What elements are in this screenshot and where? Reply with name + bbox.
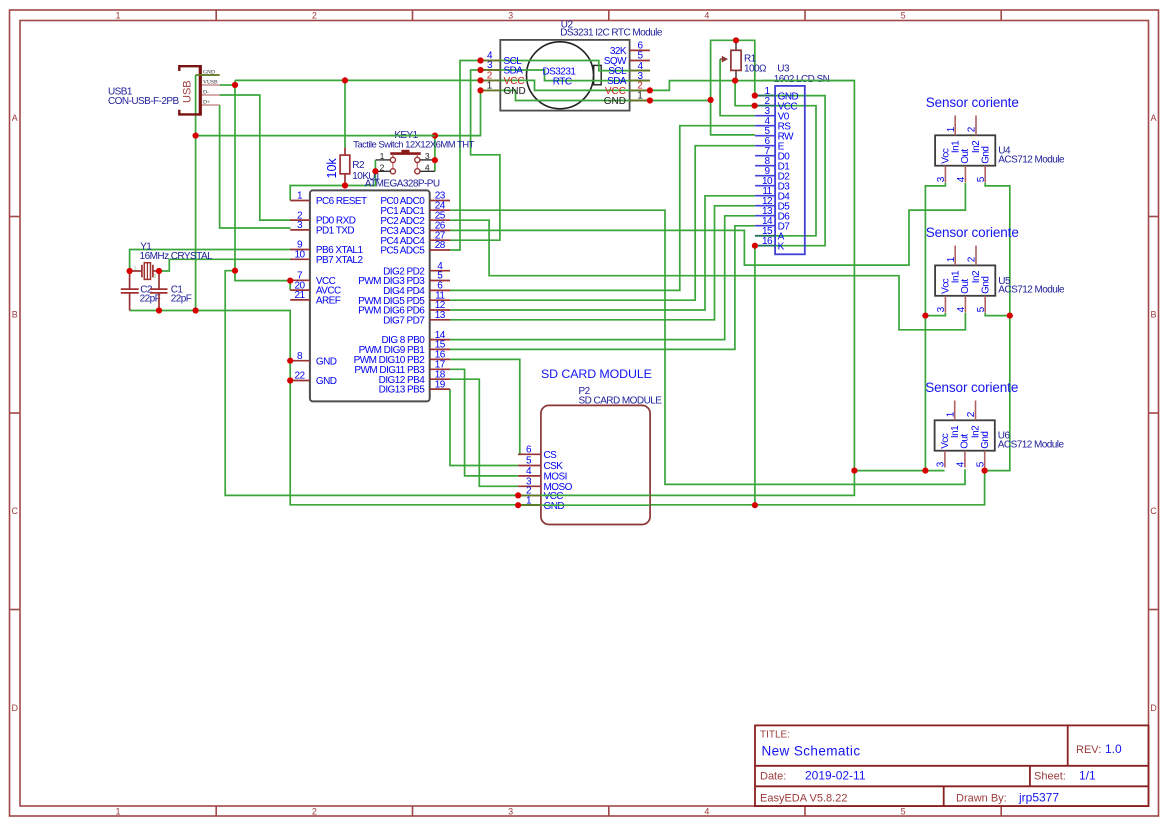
U5 pin 3 bottom [936,296,947,313]
wire U5 Gnd jog [985,313,1010,316]
svg-text:Date:: Date: [760,771,786,783]
wire VCC to chip and SD [225,271,854,496]
U1 pin 4 DIG2 PD2 [383,261,450,277]
U1 pin 8 GND [290,351,337,367]
U3 pin 4 RS [755,116,791,132]
svg-text:Gnd: Gnd [980,432,991,449]
U2 pin 2 VCC right [605,81,650,97]
svg-text:GND: GND [544,501,565,512]
wire pin6 to LCD RS [450,126,755,291]
wire over USB GND pin [196,74,220,76]
U1 pin 6 DIG4 PD4 [383,281,450,297]
resistor R1 [720,40,741,80]
U1 pin 27 PC4 ADC4 [380,230,450,246]
U2 pin 1 GND left [481,81,526,97]
svg-text:DIG13 PB5: DIG13 PB5 [379,385,426,396]
U1 pin 21 AREF [290,290,341,306]
U1 pin 26 PC3 ADC3 [380,221,450,237]
U6 pin 5 bottom [975,451,986,468]
wire over SD VCC GND pins [518,495,541,505]
U3 pin 6 E [755,136,785,152]
svg-text:VUSB: VUSB [203,80,218,86]
svg-text:D: D [11,703,18,713]
wire over SD card box VCC [541,494,650,496]
svg-text:Sensor coriente: Sensor coriente [925,380,1018,395]
U2 pin 1 GND right [604,91,650,107]
RTC module U2 body [500,40,629,111]
U6 designator labels [998,431,1065,451]
row tick marks right [1149,217,1159,610]
current sensor U6 body [935,420,995,450]
svg-text:DIG7 PD7: DIG7 PD7 [383,315,425,326]
U6 pin 4 bottom [956,451,967,468]
svg-text:K: K [778,241,785,252]
svg-text:DS3231 I2C RTC Module: DS3231 I2C RTC Module [560,27,663,38]
wire over RTC right pins [630,71,650,101]
wire pin16 to SD CS [450,359,520,454]
RTC module U2 labels [560,20,663,39]
title block Date [760,769,866,783]
U1 pin 13 DIG7 PD7 [383,310,450,326]
svg-text:4: 4 [425,162,430,172]
wire RESET net left [290,186,345,201]
connector USB1 labels [108,87,180,108]
svg-text:1.0: 1.0 [1105,742,1122,756]
svg-text:ACS712 Module: ACS712 Module [998,440,1065,451]
Sensor coriente label U6 [925,380,1018,395]
U2 pin 2 VCC left [481,71,525,87]
U1 pin 7 VCC [290,271,335,287]
crystal Y1 labels [140,241,213,262]
U2 internal text [543,66,577,87]
R2 value rotated 10k [325,158,339,179]
P2 pin 3 MOSO [518,477,573,493]
U5 pin 5 bottom [976,296,987,313]
wire U4 Vcc chain [925,183,945,471]
USB1 pin D- [202,90,220,96]
svg-text:Sheet:: Sheet: [1034,771,1066,783]
wire over LCD pins [755,96,775,246]
U1 pin 22 GND [290,371,337,387]
svg-text:Out: Out [960,149,971,164]
svg-text:GND: GND [504,86,526,97]
svg-text:R2: R2 [352,160,365,171]
svg-text:2: 2 [380,162,385,172]
U1 pin 28 PC5 ADC5 [380,240,450,256]
svg-text:16MHz CRYSTAL: 16MHz CRYSTAL [140,251,213,262]
svg-text:ATMEGA328P-PU: ATMEGA328P-PU [365,179,440,190]
svg-text:GND: GND [316,356,337,367]
KEY1 pin 2 [376,162,391,172]
svg-text:3: 3 [508,11,513,21]
svg-text:2019-02-11: 2019-02-11 [805,769,866,783]
wire USB D+ to TXD [220,105,291,228]
svg-text:jrp5377: jrp5377 [1018,790,1059,804]
svg-text:C: C [11,506,18,516]
svg-text:D+: D+ [203,100,210,106]
wire RTC internal GND [500,90,650,100]
resistor R2 [340,148,350,186]
wire GND bottom rail to SD and sensors [130,311,985,505]
LCD U3 labels [774,63,830,85]
U1 pin 2 PD0 RXD [290,210,356,226]
column numbers top [115,11,905,21]
U3 pin 11 D4 [755,186,790,202]
svg-text:A: A [12,113,18,123]
wire USB VUSB [220,84,235,86]
wire K to GND [754,246,756,506]
crystal pad numbers [134,266,157,280]
wire XTAL1 [130,250,291,272]
wire U5 Vcc jog [925,313,945,316]
svg-text:TITLE:: TITLE: [760,730,790,741]
svg-text:CON-USB-F-2PB: CON-USB-F-2PB [108,96,180,107]
C1 labels [171,285,192,305]
svg-text:B: B [12,310,18,320]
svg-text:1: 1 [115,807,120,817]
svg-text:5: 5 [901,807,906,817]
P2 pin 5 CSK [518,456,563,472]
P2 pin 6 CS [518,445,557,461]
USB1 pin VUSB [202,80,220,86]
U4 pin names [940,140,991,164]
svg-text:D: D [1150,703,1157,713]
U3 pin 12 D5 [755,196,790,212]
wire VCC pin7 jog [235,271,290,291]
svg-text:Drawn By:: Drawn By: [956,792,1007,804]
svg-text:REV:: REV: [1076,744,1101,756]
U1 pin 15 PWM DIG9 PB1 [359,340,450,356]
svg-text:2: 2 [312,807,317,817]
crystal Y1 [130,263,159,280]
wire SDA net [450,70,500,240]
wire pin18 to SD MOSO [450,379,518,486]
wire VCC loop to LCD [755,106,816,236]
svg-text:4: 4 [704,11,709,21]
svg-text:PB7 XTAL2: PB7 XTAL2 [316,255,364,266]
C2 labels [140,285,161,305]
KEY1 pin 3 [420,151,435,161]
Sensor coriente label U5 [926,225,1019,240]
wire pin13 to LCD D5 [450,206,755,320]
U2 pin 4 SCL left [481,51,523,67]
U3 pin 16 K [755,236,785,252]
wire pin24 to LCD A and U6 Out [450,210,965,484]
svg-text:21: 21 [294,290,305,301]
svg-text:22pF: 22pF [140,294,161,305]
column numbers bottom [115,807,905,817]
wire GND rail [196,90,481,135]
svg-text:Gnd: Gnd [981,147,992,164]
SD card module P2 labels [579,386,663,407]
row letters left [11,113,18,713]
P2 pin 2 VCC [518,486,563,502]
microcontroller U1 labels [365,171,440,189]
title block EasyEDA [760,792,847,804]
svg-text:RTC: RTC [553,77,572,88]
R1 labels [744,54,767,75]
wire pin17 to SD MOSI [450,369,518,476]
svg-text:PC5 ADC5: PC5 ADC5 [380,246,425,257]
wire USB D- to RXD [220,95,291,220]
U4 designator labels [998,146,1065,166]
SD card module P2 body [541,405,650,524]
svg-text:Sensor coriente: Sensor coriente [926,225,1019,240]
U1 pin 16 PWM DIG10 PB2 [354,350,450,366]
svg-text:Sensor coriente: Sensor coriente [926,95,1019,110]
KEY1 pin 4 [420,162,435,172]
current sensor U5 body [935,265,995,295]
svg-text:CSK: CSK [544,461,564,472]
U6 pin names [940,425,991,449]
U5 pin 4 bottom [956,296,967,313]
capacitor C1 [150,271,168,311]
U2 pin 5 SQW right [604,51,650,67]
svg-text:4: 4 [704,807,709,817]
svg-text:U3: U3 [777,63,790,74]
svg-text:ACS712 Module: ACS712 Module [998,285,1065,296]
svg-text:PD1 TXD: PD1 TXD [316,226,355,237]
Sensor coriente label U4 [926,95,1019,110]
U1 pin 18 DIG12 PB4 [379,369,450,385]
svg-text:MOSI: MOSI [544,472,567,483]
title block frame [755,725,1149,806]
U1 pin 14 DIG 8 PB0 [381,330,450,346]
svg-text:1: 1 [134,266,137,272]
svg-text:10: 10 [294,250,305,261]
svg-text:Out: Out [959,434,970,449]
svg-text:D-: D- [203,90,209,96]
svg-text:100Ω: 100Ω [744,63,767,74]
U3 pin 2 VCC [755,96,797,112]
svg-text:2: 2 [154,274,157,280]
wire pin19 to SD CSK [450,389,518,465]
wire RW to GND [711,100,756,135]
row letters right [1150,113,1157,713]
svg-text:SD CARD MODULE: SD CARD MODULE [541,367,652,381]
wire USB GND to rail [195,75,197,311]
svg-text:28: 28 [435,240,446,251]
U4 pin 3 bottom [936,166,947,183]
svg-text:10k: 10k [325,158,339,179]
column tick marks top [216,10,1001,21]
U4 pin 1 top [946,116,957,136]
wire RTC GND to R1 top and LCD pin1 [650,40,755,100]
USB1 pin D+ [202,100,220,106]
U1 pin 10 PB7 XTAL2 [290,250,363,266]
column tick marks bottom [216,806,1001,816]
P2 pin 1 GND [518,495,564,511]
svg-text:1/1: 1/1 [1079,769,1096,783]
wire R2 pullup [344,80,346,147]
U3 pin 5 RW [755,126,794,142]
svg-text:SDA: SDA [504,66,524,77]
U3 pin 9 D2 [755,166,790,182]
U1 pin 12 PWM DIG6 PD6 [358,300,450,316]
U5 pin names [940,270,991,294]
svg-text:GND: GND [604,96,626,107]
svg-text:3: 3 [508,807,513,817]
wire SCL net [450,61,481,251]
wire sensor VCC rail U6 [854,470,944,472]
U3 pin 10 D3 [755,176,790,192]
U3 pin 14 D7 [755,216,790,232]
SD card module big label [541,367,652,381]
wire XTAL2 [159,259,291,271]
LCD U3 body [775,86,805,254]
wire pin11 to LCD E [450,146,755,301]
U4 pin 2 top [967,116,978,136]
wire pin15 to LCD D7 [450,226,755,350]
U1 pin 19 DIG13 PB5 [379,379,450,395]
U5 pin 1 top [946,246,957,266]
U1 pin 11 PWM DIG5 PD5 [358,290,450,306]
U3 pin 13 D6 [755,206,790,222]
wire RTC internal VCC [500,80,650,90]
U1 pin 9 PB6 XTAL1 [290,240,363,256]
wire sensor GND rail U6 [985,183,1010,471]
connector USB1 body [179,65,200,116]
svg-text:Tactile Switch 12X12X6MM THT: Tactile Switch 12X12X6MM THT [353,140,474,151]
svg-text:Gnd: Gnd [981,277,992,294]
U1 pin 3 PD1 TXD [290,220,354,236]
svg-text:13: 13 [435,310,446,321]
U6 pin 1 top [945,401,956,421]
svg-text:C: C [1150,506,1157,516]
U1 pin 1 PC6 RESET [290,191,367,207]
title block TITLE [760,730,860,759]
wire R1 wiper to V0 [720,59,755,116]
U6 pin 3 bottom [936,451,947,468]
svg-text:22pF: 22pF [171,294,192,305]
svg-text:New Schematic: New Schematic [762,744,861,759]
svg-text:3: 3 [425,151,430,161]
U1 pin 25 PC2 ADC2 [380,210,450,226]
svg-text:22: 22 [294,371,305,382]
wire over 1602 LCD SN label [762,80,854,82]
U4 pin 5 bottom [976,166,987,183]
U6 pin 2 top [966,401,977,421]
svg-text:A: A [1150,113,1156,123]
U3 pin 3 V0 [755,106,790,122]
svg-text:AREF: AREF [316,296,341,307]
U5 designator labels [998,276,1065,296]
wire pin14 to LCD D6 [450,216,755,340]
svg-text:19: 19 [435,379,446,390]
wire VUSB vertical [234,80,236,270]
wire pin25 to U5 Out [450,220,965,330]
R2 labels [352,160,369,182]
wire RTC internal SCL [500,61,650,71]
row tick marks left [10,217,21,610]
svg-text:EasyEDA V5.8.22: EasyEDA V5.8.22 [760,792,847,804]
U2 pin 3 SDA left [481,60,524,76]
microcontroller U1 body [310,190,430,401]
U2 pin 6 32K right [610,41,650,57]
wire over KEY1 label [390,135,435,137]
wire over SD card box GND [541,504,650,506]
svg-text:Out: Out [960,279,971,294]
title block Drawn By [956,790,1059,804]
wire RTC internal SDA [500,70,650,81]
wire R1 bottom to LCD VCC [735,81,755,106]
U1 pin 24 PC1 ADC1 [380,200,450,216]
wire pin26 to U4 Out [450,183,965,265]
KEY1 pin 1 [376,151,391,161]
wire GND loop to LCD K [755,96,826,246]
U5 pin 2 top [967,246,978,266]
U1 pin 20 AVCC [290,280,341,296]
svg-text:PC6 RESET: PC6 RESET [316,196,367,207]
switch KEY1 body [390,150,420,174]
U2 pin 4 SCL right [608,61,650,77]
svg-text:USB: USB [182,80,194,103]
svg-text:GND: GND [316,376,337,387]
switch KEY1 labels [353,130,474,151]
U1 pin 23 PC0 ADC0 [380,191,450,207]
capacitor C2 [121,271,139,311]
svg-text:B: B [1150,310,1156,320]
svg-text:1: 1 [380,151,385,161]
U2 pin 3 SDA right [607,71,650,87]
title block Sheet [1034,769,1096,783]
wire VUSB rail to RTC VCC [235,79,481,81]
U1 pin 17 PWM DIG11 PB3 [354,360,450,376]
svg-text:1602 LCD SN: 1602 LCD SN [774,74,830,85]
title block REV [1076,742,1122,756]
current sensor U4 body [935,135,995,165]
wire RTC VCC to R1 bottom rail [650,81,855,471]
P2 pin 4 MOSI [518,466,567,482]
U3 pin 15 A [755,226,785,242]
U4 pin 4 bottom [956,166,967,183]
wire over RTC left pins [481,61,501,91]
svg-text:2: 2 [312,11,317,21]
U1 pin 5 PWM DIG3 PD3 [358,271,450,287]
wire switch to rail [434,136,436,172]
svg-text:1: 1 [115,11,120,21]
USB1 pin GND [202,70,220,76]
svg-text:CS: CS [544,450,558,461]
svg-text:ACS712 Module: ACS712 Module [998,155,1065,166]
wire pin12 to LCD D4 [450,196,755,310]
svg-text:5: 5 [901,11,906,21]
U3 pin 7 D0 [755,146,790,162]
U3 pin 1 GND [755,86,798,102]
wire RESET net right [345,160,375,186]
U3 pin 8 D1 [755,156,790,172]
